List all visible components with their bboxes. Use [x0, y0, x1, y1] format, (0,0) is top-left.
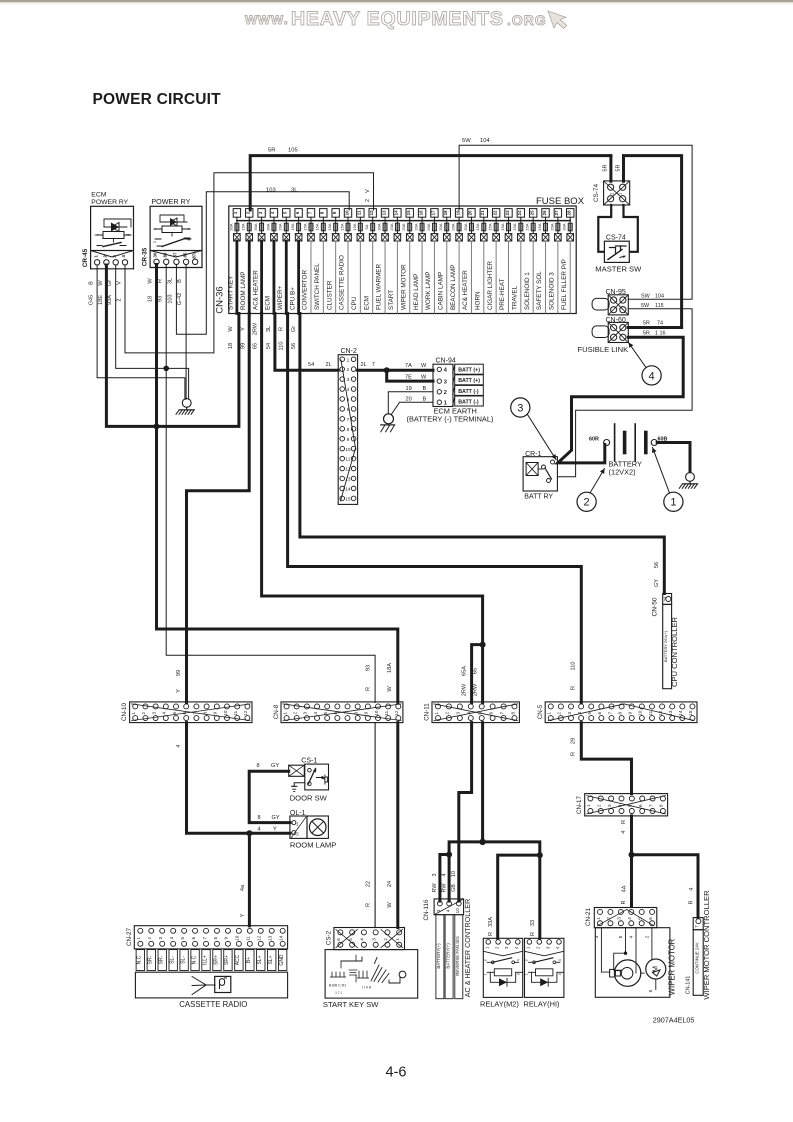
svg-text:2: 2 — [365, 199, 371, 202]
fuse F3 30A AC& HEATER — [258, 209, 265, 218]
svg-text:3: 3 — [371, 938, 376, 941]
svg-text:1: 1 — [586, 804, 591, 807]
svg-text:8: 8 — [213, 937, 218, 940]
wire 4 Y : CN-10 pin6 to room lamp — [187, 723, 290, 834]
connector CS-74 — [604, 181, 630, 205]
svg-text:8: 8 — [617, 711, 622, 714]
svg-text:3: 3 — [567, 711, 572, 714]
svg-text:RELAY(HI): RELAY(HI) — [524, 999, 560, 1008]
wire 5R 116 : CN-60 down to battery relay — [558, 337, 683, 463]
svg-text:FUSE BOX: FUSE BOX — [536, 196, 585, 207]
svg-text:15A: 15A — [500, 223, 505, 230]
svg-text:3: 3 — [151, 711, 156, 714]
svg-text:5: 5 — [618, 935, 624, 938]
svg-text:W: W — [387, 686, 393, 692]
wire CS-74 to MASTER SW right — [624, 205, 638, 252]
svg-text:CR-35: CR-35 — [141, 247, 148, 266]
svg-text:30A: 30A — [228, 223, 233, 230]
svg-text:SR-: SR- — [159, 955, 165, 964]
svg-text:4: 4 — [313, 711, 318, 714]
svg-text:7A: 7A — [405, 363, 412, 369]
wire 18 POWER RY pin30 down to CN-8 pin12 (18A W) — [157, 265, 398, 703]
svg-text:7: 7 — [372, 362, 375, 368]
svg-text:6: 6 — [648, 989, 654, 992]
svg-text:14: 14 — [278, 935, 283, 941]
svg-text:BATTERY 26V(+): BATTERY 26V(+) — [663, 630, 668, 662]
svg-text:2RW: 2RW — [472, 683, 478, 696]
svg-text:DOOR SW: DOOR SW — [290, 793, 328, 802]
svg-text:3: 3 — [617, 917, 622, 920]
fuse F11 15A CPU — [357, 209, 364, 218]
svg-text:R: R — [157, 279, 163, 283]
svg-text:5R: 5R — [643, 330, 650, 336]
fuse F15 20A WIPER MOTOR — [406, 209, 413, 218]
svg-text:4: 4 — [445, 909, 450, 912]
svg-text:28: 28 — [567, 210, 572, 215]
svg-text:POWER RY: POWER RY — [91, 199, 128, 206]
svg-text:CASSETTE RADIO: CASSETTE RADIO — [339, 255, 346, 310]
svg-text:30A: 30A — [463, 223, 468, 230]
svg-text:8: 8 — [510, 711, 515, 714]
svg-text:15A: 15A — [525, 223, 530, 230]
svg-text:65: 65 — [253, 343, 259, 349]
svg-text:W: W — [148, 278, 154, 284]
svg-text:POWER CIRCUIT: POWER CIRCUIT — [93, 91, 222, 108]
svg-text:B BR C R1: B BR C R1 — [329, 984, 346, 988]
switch START KEY SW — [325, 950, 418, 999]
svg-text:93: 93 — [366, 665, 372, 671]
fuse F19 20A BEACON LAMP — [455, 209, 462, 218]
svg-text:CN-36: CN-36 — [215, 286, 226, 313]
svg-text:SL+: SL+ — [257, 955, 263, 964]
fuse F20 30A AC& HEATER — [468, 209, 475, 218]
wire 65A branch to CN-11 pin4 — [472, 645, 483, 703]
wire 20 B : CN-94 pin1 to ground — [391, 402, 433, 414]
svg-text:Y: Y — [240, 913, 246, 917]
junction room lamp 4a — [246, 830, 252, 836]
svg-text:15A: 15A — [339, 223, 344, 230]
wire 5R : CS-74 to right bus — [624, 156, 682, 328]
svg-text:17: 17 — [431, 210, 436, 215]
wire R 33 to relay HI — [538, 855, 541, 938]
svg-text:CN-17: CN-17 — [576, 796, 583, 814]
junction 65/65A — [480, 642, 486, 648]
svg-text:WORK LAMP: WORK LAMP — [425, 272, 432, 311]
svg-text:W: W — [421, 363, 427, 369]
wire 5R 105 : fuse 2 to CS-74 — [250, 156, 611, 210]
wire R 22 : CN-8 to CS-2 — [374, 723, 376, 928]
wire 103 3L : POWER RY pin87 to fuse 10 — [176, 192, 349, 335]
svg-text:9: 9 — [347, 437, 350, 443]
wire 2 V : ECM pin4 to fuse 12 — [125, 173, 374, 353]
svg-text:7: 7 — [694, 925, 700, 928]
fuse F1 30A START KEY — [233, 209, 240, 218]
wire G-42 B : POWER RY pin85 to ground — [185, 265, 187, 400]
svg-text:FUEL WARMER: FUEL WARMER — [376, 263, 383, 310]
svg-text:6: 6 — [638, 804, 643, 807]
svg-text:2: 2 — [444, 390, 447, 396]
svg-text:60R: 60R — [589, 436, 599, 442]
svg-text:3: 3 — [303, 711, 308, 714]
svg-text:7: 7 — [499, 711, 504, 714]
wire RW 3 to CN-116 pin3 — [440, 855, 449, 902]
svg-text:CABIN LAMP: CABIN LAMP — [437, 272, 444, 310]
svg-text:15A: 15A — [290, 223, 295, 230]
svg-text:START KEY: START KEY — [228, 275, 235, 310]
fuse box — [229, 206, 576, 314]
svg-text:CN-5: CN-5 — [537, 704, 544, 719]
svg-text:12: 12 — [394, 710, 399, 716]
svg-text:SW: SW — [641, 294, 651, 300]
svg-text:4: 4 — [347, 387, 350, 393]
svg-text:10: 10 — [235, 935, 240, 941]
svg-text:I I 0 H: I I 0 H — [362, 986, 372, 990]
svg-text:PRE-HEAT: PRE-HEAT — [499, 278, 506, 310]
svg-text:AC& HEATER: AC& HEATER — [462, 270, 469, 310]
svg-text:CS-74: CS-74 — [593, 184, 600, 203]
fuse F8 15A SWITCH PANEL — [320, 209, 327, 218]
svg-text:9: 9 — [224, 937, 229, 940]
svg-text:7E: 7E — [405, 375, 412, 381]
fuse F22 15A CIGAR LIGHTER — [492, 209, 499, 218]
svg-text:B: B — [177, 279, 183, 283]
svg-text:1: 1 — [282, 711, 287, 714]
svg-text:26: 26 — [542, 210, 547, 215]
wire 93 R : POWER RY pin86 to CN-8 pin10 — [166, 265, 375, 703]
svg-text:20A: 20A — [426, 223, 431, 230]
svg-text:SR+: SR+ — [213, 955, 219, 965]
svg-text:29: 29 — [571, 738, 577, 744]
svg-text:15A: 15A — [302, 223, 307, 230]
svg-text:20A: 20A — [451, 223, 456, 230]
svg-text:18: 18 — [443, 210, 448, 215]
wire 110 R : fuse 5 to CN-5 pin4 — [288, 314, 582, 703]
svg-text:99: 99 — [176, 670, 182, 676]
svg-text:CONTINUE 24V: CONTINUE 24V — [694, 942, 699, 973]
terminal boxes BATT — [455, 364, 484, 374]
svg-text:ILL+: ILL+ — [202, 955, 208, 965]
svg-text:54: 54 — [266, 343, 272, 349]
AC & HEATER CONTROLLER box — [436, 915, 444, 999]
svg-text:BEACON LAMP: BEACON LAMP — [450, 265, 457, 311]
svg-text:3: 3 — [456, 711, 461, 714]
svg-text:V: V — [116, 281, 122, 285]
svg-text:30A: 30A — [376, 223, 381, 230]
svg-text:2: 2 — [103, 255, 108, 258]
svg-text:R: R — [621, 900, 627, 904]
svg-text:.ORG: .ORG — [507, 12, 547, 28]
svg-text:20: 20 — [406, 397, 412, 403]
svg-text:2: 2 — [383, 938, 388, 941]
callout 2 — [590, 469, 605, 494]
svg-text:6: 6 — [597, 711, 602, 714]
svg-text:ROOM LAMP: ROOM LAMP — [240, 272, 247, 311]
svg-text:CIGAR LIGHTER: CIGAR LIGHTER — [487, 261, 494, 310]
fuse F23 15A PRE-HEAT — [505, 209, 512, 218]
scan edge shading top — [0, 0, 793, 2]
svg-text:10: 10 — [345, 447, 351, 453]
svg-text:11: 11 — [345, 457, 350, 463]
wire 4a Y : down to CN-27 pin11 — [248, 833, 251, 926]
svg-text:CPU CONTROLLER: CPU CONTROLLER — [670, 616, 679, 687]
svg-text:5A: 5A — [364, 224, 369, 229]
svg-text:20A: 20A — [438, 223, 443, 230]
svg-text:30: 30 — [153, 252, 158, 257]
svg-text:8: 8 — [659, 804, 664, 807]
svg-text:2: 2 — [597, 804, 602, 807]
svg-text:5R: 5R — [268, 148, 275, 154]
svg-text:ROOM LAMP: ROOM LAMP — [290, 840, 336, 849]
svg-text:CPU: CPU — [351, 296, 358, 310]
svg-text:CS-2: CS-2 — [326, 930, 333, 945]
battery BT1 12Vx2 — [604, 440, 610, 446]
svg-text:15: 15 — [406, 210, 411, 215]
svg-text:24: 24 — [517, 210, 522, 215]
wire R 33A to relay M2 — [498, 855, 540, 938]
wire 5R 74 : CN-60 to bus — [628, 326, 681, 329]
relay RELAY(HI) — [525, 938, 564, 997]
fuse F26 15A SAFETY SOL — [542, 209, 549, 218]
svg-text:33: 33 — [530, 920, 536, 926]
svg-text:2907A4EL05: 2907A4EL05 — [653, 1016, 695, 1025]
svg-text:3: 3 — [607, 804, 612, 807]
fuse F24 15A TRAVEL — [517, 209, 524, 218]
svg-text:3: 3 — [432, 874, 438, 877]
wire G45 B : ECM pin1 to ground — [97, 265, 185, 399]
svg-text:W: W — [387, 902, 393, 908]
svg-text:SWITCH PANEL: SWITCH PANEL — [314, 263, 321, 310]
svg-text:4: 4 — [360, 938, 365, 941]
svg-text:3: 3 — [158, 937, 163, 940]
svg-text:CS-74: CS-74 — [606, 235, 626, 242]
svg-text:6: 6 — [648, 917, 653, 920]
svg-text:2: 2 — [525, 959, 529, 961]
svg-text:4: 4 — [162, 711, 167, 714]
svg-text:4: 4 — [627, 917, 632, 920]
svg-text:AC& HEATER: AC& HEATER — [252, 270, 259, 310]
svg-text:CN-94: CN-94 — [436, 358, 456, 365]
svg-text:93: 93 — [157, 296, 163, 302]
wire R 4A : to CN-21 — [630, 855, 633, 907]
svg-text:11: 11 — [384, 710, 389, 715]
svg-text:20A: 20A — [401, 223, 406, 230]
svg-text:CN-11: CN-11 — [424, 703, 431, 721]
svg-text:CN-27: CN-27 — [126, 928, 133, 946]
svg-text:B+: B+ — [246, 957, 252, 963]
fuse F17 20A WORK LAMP — [431, 209, 438, 218]
svg-text:RW: RW — [432, 883, 438, 893]
svg-text:103: 103 — [266, 187, 276, 193]
svg-text:SOLENOID 1: SOLENOID 1 — [524, 272, 531, 310]
svg-text:AC & HEATER CONTROLLER: AC & HEATER CONTROLLER — [463, 899, 472, 998]
callout 1 — [653, 448, 670, 494]
svg-text:SL+: SL+ — [268, 955, 274, 964]
svg-text:CS-1: CS-1 — [301, 758, 317, 765]
svg-text:30A: 30A — [265, 223, 270, 230]
fuse F7 15A CONVERTOR — [307, 209, 314, 218]
svg-text:CN-50: CN-50 — [652, 597, 659, 616]
svg-text:2RW: 2RW — [253, 322, 259, 335]
svg-text:Gr: Gr — [107, 280, 113, 286]
svg-text:4: 4 — [517, 959, 521, 961]
fuse F13 30A FUEL WARMER — [381, 209, 388, 218]
svg-text:R: R — [621, 820, 627, 824]
wire CS-74 to MASTER SW left — [598, 205, 611, 252]
svg-text:1: 1 — [434, 711, 439, 714]
svg-text:4: 4 — [621, 830, 627, 833]
junction wiper feed — [629, 852, 635, 858]
fuse F21 15A HORN — [480, 209, 487, 218]
svg-text:CN-116: CN-116 — [423, 899, 430, 920]
svg-text:W: W — [228, 326, 234, 332]
svg-text:SL-: SL- — [180, 956, 186, 964]
svg-text:Y: Y — [240, 327, 246, 331]
svg-text:30A: 30A — [562, 223, 567, 230]
svg-text:B: B — [89, 281, 95, 285]
svg-text:15: 15 — [688, 710, 693, 716]
svg-text:99: 99 — [240, 343, 246, 349]
svg-text:BATT (-): BATT (-) — [458, 389, 479, 395]
svg-text:4: 4 — [121, 255, 126, 258]
fuse bus bar — [237, 220, 570, 222]
wire R 4 : CN-17 down — [630, 816, 633, 855]
junction 7A/7E — [384, 367, 390, 373]
svg-text:14: 14 — [394, 210, 399, 215]
svg-text:2: 2 — [347, 367, 350, 373]
svg-text:115: 115 — [655, 303, 664, 309]
wire 5W 104 : fuse 19 to CN-95 — [459, 145, 692, 299]
svg-text:12: 12 — [257, 935, 262, 941]
svg-text:4: 4 — [689, 887, 695, 890]
fuse F6 15A CPU B+ — [295, 209, 302, 218]
svg-text:CN-21: CN-21 — [585, 908, 592, 926]
svg-text:4: 4 — [558, 959, 562, 961]
fuse F12 5A ECM — [369, 209, 376, 218]
ground battery earth — [686, 473, 695, 482]
svg-text:3L: 3L — [291, 187, 298, 193]
svg-text:2: 2 — [116, 298, 122, 301]
svg-text:30A: 30A — [253, 223, 258, 230]
svg-text:4: 4 — [649, 370, 655, 382]
svg-text:1: 1 — [596, 917, 601, 920]
wire CS-74 pin stub left — [609, 156, 612, 182]
svg-text:18A: 18A — [387, 663, 393, 673]
svg-text:2L: 2L — [326, 362, 332, 368]
svg-text:23: 23 — [505, 210, 510, 215]
svg-text:7: 7 — [202, 937, 207, 940]
svg-text:(12VX2): (12VX2) — [609, 468, 636, 477]
svg-text:2: 2 — [445, 711, 450, 714]
svg-text:65: 65 — [472, 668, 478, 674]
svg-text:WIPER MOTOR: WIPER MOTOR — [668, 938, 677, 995]
svg-text:BATT RY: BATT RY — [524, 494, 553, 501]
svg-text:8: 8 — [347, 427, 350, 433]
wire 65 2RW : fuse 3 to CN-11 — [262, 314, 483, 703]
svg-text:SR-: SR- — [148, 955, 154, 964]
svg-text:4: 4 — [442, 874, 448, 877]
svg-text:4: 4 — [258, 827, 261, 833]
svg-text:(BATTERY (-) TERMINAL): (BATTERY (-) TERMINAL) — [407, 415, 494, 424]
svg-text:8: 8 — [258, 815, 261, 821]
svg-text:2: 2 — [141, 711, 146, 714]
svg-text:85: 85 — [182, 252, 187, 257]
svg-text:FUEL FILLER P/P: FUEL FILLER P/P — [561, 259, 568, 310]
connector CN-141 — [693, 918, 703, 930]
svg-text:11: 11 — [648, 710, 653, 715]
svg-text:5R: 5R — [603, 164, 609, 171]
callout 3 — [528, 415, 557, 460]
svg-text:2RW: 2RW — [461, 683, 467, 696]
svg-text:9: 9 — [628, 711, 633, 714]
fuse F25 15A SOLENOID 1 — [529, 209, 536, 218]
svg-text:3 2 1: 3 2 1 — [335, 991, 342, 995]
svg-text:3: 3 — [517, 973, 521, 975]
svg-text:21: 21 — [480, 210, 485, 215]
svg-text:2: 2 — [483, 959, 487, 961]
svg-text:B: B — [423, 386, 427, 392]
svg-text:CR-45: CR-45 — [82, 248, 89, 267]
wire 2L 7 : CN-2 to CN-94 — [358, 369, 433, 372]
svg-text:15A: 15A — [352, 223, 357, 230]
svg-text:33A: 33A — [488, 917, 494, 927]
svg-text:9: 9 — [213, 711, 218, 714]
svg-text:GY: GY — [272, 815, 280, 821]
svg-text:HORN: HORN — [475, 291, 482, 310]
svg-text:105: 105 — [288, 148, 298, 154]
svg-text:1: 1 — [483, 973, 487, 975]
svg-text:R: R — [571, 686, 577, 690]
fuse F10 15A CASSETTE RADIO — [344, 209, 351, 218]
svg-text:15A: 15A — [327, 223, 332, 230]
svg-text:2L: 2L — [361, 362, 367, 368]
fuse F16 20A HEAD LAMP — [418, 209, 425, 218]
svg-text:11: 11 — [233, 710, 238, 715]
cassette radio box — [135, 972, 287, 998]
svg-text:G45: G45 — [89, 295, 95, 306]
svg-text:2: 2 — [584, 497, 590, 509]
svg-text:22: 22 — [492, 210, 497, 215]
cassette radio terminal labels — [136, 950, 144, 971]
svg-text:CASSETTE RADIO: CASSETTE RADIO — [179, 1000, 247, 1009]
svg-text:FUSIBLE LINK: FUSIBLE LINK — [578, 345, 629, 354]
wire 60B battery to ground — [657, 443, 690, 472]
svg-text:W: W — [421, 375, 427, 381]
svg-text:B: B — [423, 397, 427, 403]
wire 5W 115 : CN-95 to CR-1 coil — [558, 309, 693, 477]
svg-text:SR+: SR+ — [224, 955, 230, 965]
fuse F2 15A ROOM LAMP — [246, 209, 253, 218]
svg-text:1: 1 — [547, 711, 552, 714]
relay RELAY(M2) — [483, 938, 522, 997]
svg-text:WIPER MOTOR: WIPER MOTOR — [400, 264, 407, 310]
fuse F5 20A WIPER+ — [283, 209, 290, 218]
svg-text:12: 12 — [243, 710, 248, 716]
svg-text:WIPER+: WIPER+ — [277, 285, 284, 310]
svg-text:22: 22 — [366, 881, 372, 887]
svg-text:1: 1 — [93, 255, 98, 258]
svg-text:7: 7 — [347, 417, 350, 423]
svg-text:25: 25 — [529, 210, 534, 215]
fuse F9 15A CLUSTER — [332, 209, 339, 218]
junction 18/18E — [154, 423, 160, 429]
svg-text:R: R — [488, 932, 494, 936]
svg-text:ACC: ACC — [235, 954, 241, 965]
svg-text:GY: GY — [271, 763, 279, 769]
svg-text:27: 27 — [554, 210, 559, 215]
svg-text:65A: 65A — [461, 666, 467, 676]
watermark www.HEAVY EQUIPMENTS.org — [244, 8, 547, 30]
svg-text:3L: 3L — [168, 278, 174, 284]
